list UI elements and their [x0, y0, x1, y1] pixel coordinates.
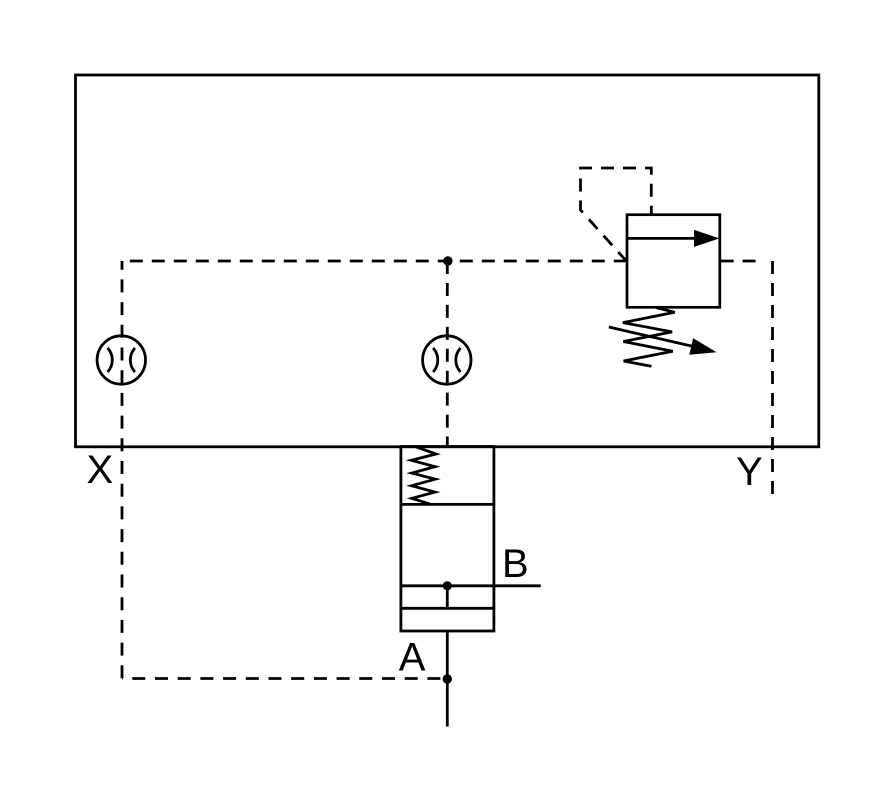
svg-text:B: B [502, 542, 529, 586]
svg-text:X: X [87, 448, 114, 492]
svg-text:Y: Y [736, 450, 763, 494]
svg-text:A: A [399, 635, 426, 679]
